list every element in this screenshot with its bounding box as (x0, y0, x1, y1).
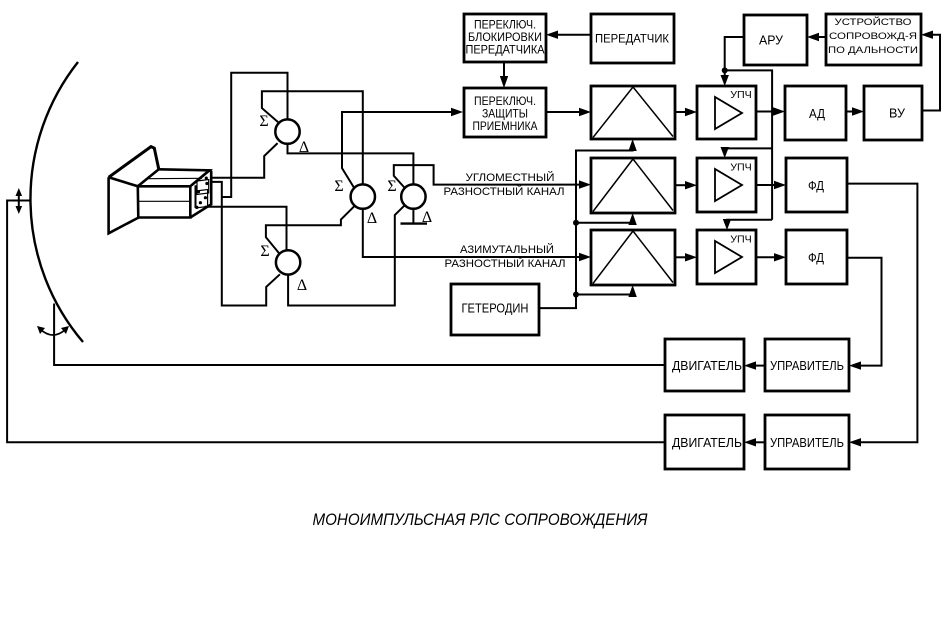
wire mixer 3 to IF amplifier 3 (675, 253, 697, 261)
junction LO split mixer 3 (573, 292, 579, 298)
IF amplifier 1 (697, 86, 756, 139)
wire horn feed 4 to hybrid B top (205, 207, 287, 250)
wire sum channel to receiver protection switch (342, 108, 463, 188)
hybrid junction C (351, 184, 375, 208)
hybrid junction A (275, 119, 299, 143)
svg-text:АД: АД (809, 106, 825, 121)
wire motor 2 to antenna elevation drive (7, 201, 665, 443)
wire elevation difference channel from hybrid D (394, 165, 591, 189)
mixer 3 (591, 230, 675, 285)
wire amplitude detector to video amplifier (846, 107, 864, 115)
arrow LO into mixer 1 (628, 139, 636, 151)
IF amplifier 3 (697, 230, 756, 284)
box range tracking device (826, 14, 921, 65)
wire hybrid B delta to hybrid D lower-left (288, 205, 405, 305)
svg-text:Δ: Δ (367, 210, 377, 227)
antenna dish reflector (30, 62, 83, 342)
svg-text:УСТРОЙСТВО: УСТРОЙСТВО (835, 16, 912, 28)
box transmitter blocking switch (464, 14, 546, 62)
junction LO split mixer 2 (573, 220, 579, 226)
svg-text:УПРАВИТЕЛЬ: УПРАВИТЕЛЬ (770, 358, 844, 373)
svg-text:Σ: Σ (259, 113, 268, 130)
wire video amplifier to range tracker (921, 31, 940, 111)
wire AGC branch to IF amplifier 2 (721, 147, 773, 158)
svg-text:ПЕРЕДАТЧИКА: ПЕРЕДАТЧИКА (466, 43, 545, 57)
box controller 2 (765, 415, 849, 469)
svg-text:АЗИМУТАЛЬНЫЙ: АЗИМУТАЛЬНЫЙ (460, 243, 554, 256)
wire hybrid B sum to hybrid C lower-left (266, 206, 354, 254)
box phase detector 2 (786, 230, 847, 284)
svg-text:ФД: ФД (808, 250, 824, 265)
svg-text:УГЛОМЕСТНЫЙ: УГЛОМЕСТНЫЙ (466, 171, 555, 184)
wire LO branch to mixer 3 (576, 285, 637, 297)
wire hybrid A delta to hybrid D top (288, 144, 414, 185)
mixer 2 (591, 158, 675, 213)
wire IF amplifier 3 to phase detector 2 (756, 253, 786, 261)
svg-text:МОНОИМПУЛЬСНАЯ РЛС СОПРОВОЖДЕН: МОНОИМПУЛЬСНАЯ РЛС СОПРОВОЖДЕНИЯ (313, 510, 648, 529)
label elevation difference channel (444, 171, 565, 198)
IF amplifier 2 (697, 158, 756, 212)
svg-text:РАЗНОСТНЫЙ КАНАЛ: РАЗНОСТНЫЙ КАНАЛ (445, 257, 566, 270)
svg-text:УПРАВИТЕЛЬ: УПРАВИТЕЛЬ (770, 435, 844, 450)
wire mixer 2 to IF amplifier 2 (675, 181, 697, 189)
wire hybrid A sum to hybrid C top (262, 91, 363, 184)
wire blocking switch to protection switch (500, 62, 508, 88)
svg-text:Δ: Δ (297, 277, 307, 294)
svg-text:УПЧ: УПЧ (730, 163, 752, 174)
wire transmitter to blocking switch (546, 31, 591, 39)
wire mixer 1 to IF amplifier 1 (675, 108, 697, 116)
box AGC (744, 15, 807, 65)
wire AGC bus (725, 70, 772, 219)
svg-text:РАЗНОСТНЫЙ КАНАЛ: РАЗНОСТНЫЙ КАНАЛ (444, 185, 565, 198)
svg-text:УПЧ: УПЧ (730, 235, 752, 246)
wire horn feed 2 to hybrid B (212, 182, 280, 306)
svg-text:Σ: Σ (260, 243, 269, 260)
mixer 1 (591, 86, 675, 139)
svg-text:УПЧ: УПЧ (730, 90, 752, 101)
wire LO branch to mixer 2 (576, 213, 637, 225)
box motor 2 (665, 415, 744, 469)
horn antenna (109, 147, 212, 234)
wire horn feed 1 to hybrid A (212, 143, 278, 178)
hybrid junction D (401, 184, 425, 208)
junction AGC split (722, 67, 728, 73)
svg-text:ПЕРЕДАТЧИК: ПЕРЕДАТЧИК (595, 32, 669, 46)
svg-text:ПО ДАЛЬНОСТИ: ПО ДАЛЬНОСТИ (828, 45, 918, 56)
wire azimuth difference channel from hybrid C (363, 209, 591, 261)
label azimuth difference channel (445, 243, 566, 270)
wire phase detector 2 to controller 1 (847, 258, 882, 370)
wire protection switch to mixer 1 (546, 108, 591, 116)
svg-text:ФД: ФД (808, 178, 824, 193)
box video amplifier (864, 86, 922, 140)
matched load terminator on hybrid D (401, 209, 428, 224)
wire AGC branch to IF amplifier 3 (723, 219, 772, 230)
wire motor 1 to antenna azimuth drive (54, 304, 665, 366)
wire local oscillator bus (539, 149, 633, 308)
box transmitter (591, 14, 674, 63)
azimuth rotation arrow (37, 326, 69, 335)
svg-text:СОПРОВОЖД-Я: СОПРОВОЖД-Я (829, 31, 917, 42)
svg-text:Σ: Σ (334, 178, 343, 195)
wire IF amplifier 1 to amplitude detector (756, 107, 785, 115)
elevation rotation arrow (16, 188, 23, 214)
box amplitude detector (785, 86, 846, 140)
box phase detector 1 (786, 158, 847, 212)
wire IF amplifier 2 to phase detector 1 (756, 181, 786, 189)
svg-text:ДВИГАТЕЛЬ: ДВИГАТЕЛЬ (672, 435, 742, 450)
svg-text:Σ: Σ (387, 178, 396, 195)
wire range tracker to AGC (807, 33, 826, 41)
svg-text:ДВИГАТЕЛЬ: ДВИГАТЕЛЬ (672, 358, 742, 373)
svg-text:ВУ: ВУ (889, 106, 906, 121)
box motor 1 (665, 339, 744, 391)
box controller 1 (765, 339, 849, 391)
svg-text:ПРИЕМНИКА: ПРИЕМНИКА (473, 119, 538, 133)
svg-text:ГЕТЕРОДИН: ГЕТЕРОДИН (462, 301, 529, 316)
box receiver protection switch (464, 88, 546, 137)
wire controller 2 to motor 2 (744, 438, 765, 446)
box local oscillator (451, 284, 539, 335)
wire phase detector 1 to controller 2 (847, 184, 917, 447)
wire controller 1 to motor 1 (744, 361, 765, 369)
wire horn feed 3 to hybrid A top (222, 73, 288, 197)
hybrid junction B (276, 250, 300, 274)
svg-text:АРУ: АРУ (759, 33, 784, 48)
wire AGC output to IF amplifier 1 (721, 37, 745, 86)
